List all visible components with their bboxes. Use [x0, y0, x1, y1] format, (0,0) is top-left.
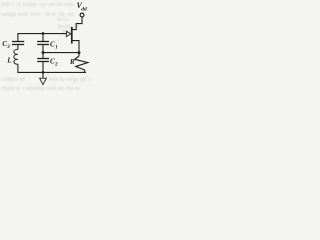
svg-text:3: 3	[6, 45, 10, 50]
capacitor C3	[12, 42, 24, 45]
wire drain to Vdd	[72, 17, 82, 30]
capacitor C2	[37, 59, 49, 62]
wire C1 top lead	[42, 34, 44, 42]
ground stub wire	[42, 72, 44, 78]
node dot ground on rail	[42, 71, 45, 74]
wire middle (source net)	[43, 52, 79, 54]
terminal Vdd circle	[80, 13, 84, 17]
wire C3 to L	[17, 45, 19, 50]
wire L to bottom rail	[17, 64, 19, 72]
svg-text:2: 2	[54, 62, 58, 67]
ground symbol	[40, 78, 47, 84]
svg-text:R: R	[69, 58, 75, 66]
wire top rail (gate net)	[17, 33, 66, 35]
wire C2 to bottom rail	[42, 62, 44, 73]
transistor Q1 gate arrow	[66, 31, 71, 36]
node dot source/resistor	[78, 51, 81, 54]
svg-text:1: 1	[55, 45, 58, 50]
wire source node to resistor	[78, 53, 80, 56]
svg-text:L: L	[6, 57, 11, 65]
wire bottom rail	[17, 71, 86, 73]
inductor L	[14, 49, 18, 64]
wire source lead	[72, 41, 79, 53]
wire C3 top lead	[17, 34, 19, 42]
svg-text:dd: dd	[81, 7, 87, 13]
wire C1 to C2	[42, 45, 44, 59]
resistor R	[75, 56, 88, 72]
ghost bleed-through text bottom	[1, 77, 25, 83]
node dot gate/C1 top	[42, 32, 45, 35]
node dot C1/C2 junction	[42, 51, 45, 54]
capacitor C1	[37, 42, 49, 45]
transistor Q1 channel bar	[71, 27, 73, 44]
ghost bleed-through text top	[1, 2, 74, 8]
